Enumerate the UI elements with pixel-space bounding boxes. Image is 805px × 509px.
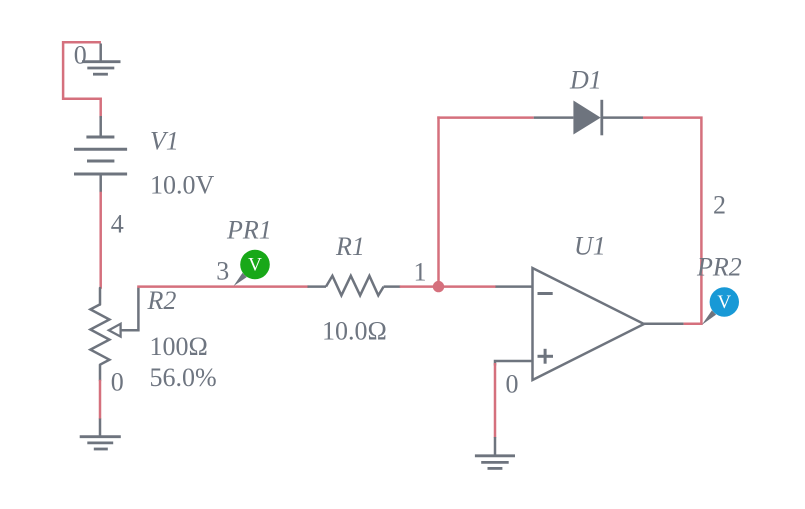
wire — [494, 363, 497, 438]
svg-text:1: 1 — [414, 258, 427, 287]
wire — [684, 323, 703, 326]
potentiometer R2 — [90, 288, 138, 381]
ground — [80, 419, 121, 450]
svg-text:R2: R2 — [147, 286, 177, 315]
svg-text:R1: R1 — [335, 232, 365, 261]
probe PR2 — [702, 287, 739, 325]
svg-text:PR2: PR2 — [696, 253, 742, 282]
wire — [400, 285, 496, 288]
svg-text:D1: D1 — [569, 66, 602, 95]
svg-text:0: 0 — [111, 368, 124, 397]
svg-text:V1: V1 — [150, 127, 179, 156]
svg-text:PR1: PR1 — [226, 215, 272, 244]
svg-text:56.0%: 56.0% — [150, 363, 217, 392]
svg-text:3: 3 — [216, 256, 229, 285]
wire — [643, 118, 701, 325]
svg-text:2: 2 — [713, 191, 726, 220]
ground — [82, 44, 121, 75]
diode D1 — [534, 100, 643, 136]
ground — [475, 437, 515, 468]
svg-text:0: 0 — [74, 40, 87, 69]
svg-text:100Ω: 100Ω — [150, 332, 208, 361]
probe PR1 — [234, 250, 270, 286]
svg-text:V: V — [248, 254, 262, 275]
wire — [99, 380, 102, 419]
wire — [437, 116, 440, 286]
wire — [99, 192, 102, 289]
wire — [63, 42, 101, 118]
svg-text:10.0Ω: 10.0Ω — [322, 317, 387, 346]
svg-text:4: 4 — [111, 210, 124, 239]
svg-text:0: 0 — [506, 370, 519, 399]
resistor R1 — [308, 276, 401, 296]
svg-text:U1: U1 — [574, 232, 606, 261]
junction — [433, 281, 444, 292]
op-amp U1 — [495, 268, 684, 380]
svg-text:10.0V: 10.0V — [150, 171, 215, 200]
svg-text:V: V — [717, 292, 731, 313]
wire — [437, 116, 533, 119]
wire net 3 — [137, 285, 308, 288]
battery V1 — [74, 116, 127, 193]
